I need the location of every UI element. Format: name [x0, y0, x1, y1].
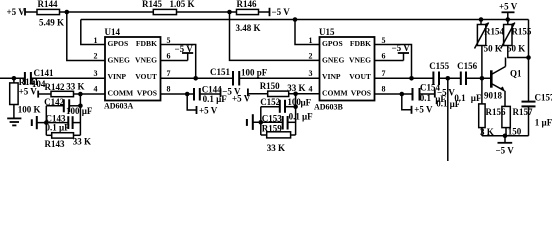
- capacitor C155: [433, 72, 439, 86]
- op-amp U14 AD603A: [105, 37, 161, 101]
- junction U15 pin1 on gain line: [293, 17, 298, 22]
- svg-text:R141: R141: [19, 77, 39, 87]
- wire: [60, 11, 154, 13]
- svg-text:−5 V: −5 V: [392, 43, 411, 53]
- svg-text:VNEG: VNEG: [349, 56, 371, 65]
- svg-text:5.49 K: 5.49 K: [39, 18, 64, 28]
- svg-text:33 K: 33 K: [267, 143, 285, 153]
- svg-text:−5 V: −5 V: [496, 146, 515, 156]
- svg-text:0.1: 0.1: [289, 112, 301, 122]
- resistor R146: [237, 9, 259, 14]
- wire node X down: [447, 78, 449, 161]
- input junction: [12, 76, 17, 81]
- capacitor C153: [247, 114, 253, 130]
- capacitor C151: [233, 71, 239, 86]
- svg-text:VOUT: VOUT: [349, 72, 371, 81]
- -5V terminal bottom: [504, 136, 506, 143]
- junction R155 top: [506, 17, 511, 22]
- svg-text:−5 V: −5 V: [175, 44, 194, 54]
- -5V terminal after C144: [220, 88, 222, 97]
- svg-text:0.1: 0.1: [436, 99, 448, 109]
- svg-text:Q1: Q1: [510, 69, 522, 79]
- wire: [177, 11, 237, 13]
- svg-text:C156: C156: [457, 61, 477, 71]
- svg-text:8: 8: [167, 85, 171, 94]
- svg-text:8: 8: [382, 85, 386, 94]
- svg-text:µF: µF: [301, 98, 312, 108]
- resistor R155 (adjustable): [507, 20, 509, 25]
- svg-text:R159: R159: [262, 124, 282, 134]
- svg-text:1 µF: 1 µF: [535, 118, 552, 128]
- wire U15 pin5 feedback: [375, 45, 412, 79]
- svg-text:33 K: 33 K: [66, 81, 84, 91]
- svg-text:GPOS: GPOS: [322, 39, 343, 48]
- svg-text:U15: U15: [319, 27, 335, 37]
- svg-text:µF: µF: [450, 99, 461, 109]
- svg-text:GNEG: GNEG: [108, 56, 130, 65]
- svg-text:−5 V: −5 V: [437, 87, 455, 97]
- svg-text:VPOS: VPOS: [137, 89, 157, 98]
- svg-text:100 pF: 100 pF: [241, 68, 268, 78]
- svg-text:VPOS: VPOS: [351, 89, 371, 98]
- junction R154 top: [479, 17, 484, 22]
- node B junction: [227, 10, 232, 15]
- svg-text:R154: R154: [484, 27, 504, 37]
- resistor R141: [13, 78, 15, 83]
- wire U14 pin1 riser: [81, 20, 105, 45]
- wire node B to U15 pin2: [230, 12, 320, 60]
- wire C151 to U15 pin3: [239, 77, 319, 79]
- svg-text:2: 2: [309, 52, 313, 61]
- svg-text:R144: R144: [38, 0, 58, 9]
- -5V terminal after R146: [269, 8, 271, 16]
- junction FDBK-VOUT: [193, 76, 198, 81]
- resistor R156: [481, 78, 483, 104]
- svg-text:+5 V: +5 V: [19, 87, 38, 97]
- svg-text:5: 5: [382, 36, 386, 45]
- wire R155 bottom to collector node: [508, 46, 529, 58]
- wire U14 pin8: [161, 93, 195, 95]
- svg-text:+5 V: +5 V: [499, 2, 518, 12]
- wire R142 to U14 pin4: [74, 93, 106, 95]
- wire C141 to U14 pin3: [31, 77, 105, 79]
- wire U14 pin5 feedback: [161, 45, 196, 79]
- svg-text:VNEG: VNEG: [135, 56, 157, 65]
- svg-text:COMM: COMM: [108, 89, 134, 98]
- wire U14 pin7 VOUT: [161, 77, 234, 79]
- bus wire left: [45, 106, 47, 136]
- svg-text:R157: R157: [513, 107, 533, 117]
- svg-text:FDBK: FDBK: [136, 39, 157, 48]
- svg-text:GPOS: GPOS: [108, 39, 129, 48]
- svg-text:1: 1: [309, 36, 313, 45]
- svg-text:9018: 9018: [484, 91, 503, 101]
- svg-text:7: 7: [382, 69, 386, 78]
- U14 pin names: [108, 39, 158, 98]
- svg-text:R142: R142: [45, 82, 65, 92]
- capacitor C154: [413, 88, 420, 101]
- svg-text:R150: R150: [260, 81, 280, 91]
- svg-text:33 K: 33 K: [73, 136, 91, 146]
- node A junction: [65, 10, 70, 15]
- capacitor C152: [261, 106, 280, 108]
- svg-text:100 µF: 100 µF: [66, 106, 93, 116]
- svg-text:R143: R143: [45, 139, 65, 149]
- resistor R157: [502, 106, 510, 127]
- svg-text:C153: C153: [262, 114, 282, 124]
- capacitor C157: [522, 102, 536, 107]
- svg-text:AD603A: AD603A: [104, 102, 134, 111]
- svg-text:AD603B: AD603B: [314, 103, 344, 112]
- svg-text:6: 6: [382, 52, 386, 61]
- bottom rail: [482, 135, 529, 137]
- resistor R142: [51, 91, 74, 96]
- svg-text:3: 3: [309, 69, 313, 78]
- svg-text:1.05 K: 1.05 K: [170, 0, 195, 9]
- bus wire right: [79, 94, 81, 135]
- bus wires U15 network: [295, 94, 297, 135]
- svg-text:3: 3: [94, 69, 98, 78]
- wire U15 pin8: [375, 93, 413, 95]
- svg-text:GNEG: GNEG: [322, 56, 344, 65]
- gain control line: [81, 19, 529, 21]
- capacitor C142: [46, 105, 64, 107]
- svg-text:0.1 µF: 0.1 µF: [46, 123, 71, 133]
- capacitor C141: [25, 72, 31, 85]
- svg-text:50 K: 50 K: [484, 43, 502, 53]
- wire: [25, 11, 37, 13]
- +5V rail drop right: [528, 20, 530, 102]
- -5V symbol U15 pin6: [375, 60, 404, 62]
- node X junction: [446, 76, 451, 81]
- -5V terminal after C154: [434, 90, 436, 98]
- capacitor C156: [461, 72, 466, 86]
- svg-text:C142: C142: [44, 97, 64, 107]
- svg-text:R146: R146: [237, 0, 257, 9]
- svg-text:C144: C144: [202, 84, 222, 94]
- svg-text:C151: C151: [210, 67, 230, 77]
- svg-text:VINP: VINP: [322, 72, 341, 81]
- resistor R150: [268, 91, 289, 96]
- capacitor C143: [32, 116, 37, 129]
- svg-text:R145: R145: [142, 0, 162, 9]
- svg-text:4: 4: [94, 85, 98, 94]
- +5V terminal U15 pin8: [402, 94, 412, 110]
- svg-text:3.48 K: 3.48 K: [236, 23, 261, 33]
- transistor Q1 9018: [490, 70, 493, 87]
- svg-text:4: 4: [309, 85, 313, 94]
- svg-text:COMM: COMM: [322, 89, 348, 98]
- wire U15 pin1 riser: [295, 20, 320, 45]
- wire: [259, 11, 270, 13]
- wire U15 pin7 VOUT: [375, 77, 434, 79]
- -5V symbol U14 pin6: [161, 60, 188, 62]
- wire node A to U14 pin2: [67, 12, 105, 61]
- input wire: [0, 77, 25, 79]
- +5V terminal U14 pin8: [187, 94, 196, 110]
- svg-text:VINP: VINP: [108, 72, 127, 81]
- resistor R145: [153, 9, 176, 14]
- svg-text:µF: µF: [471, 93, 482, 103]
- svg-text:U14: U14: [105, 27, 121, 37]
- svg-text:2: 2: [94, 52, 98, 61]
- svg-text:FDBK: FDBK: [350, 39, 371, 48]
- svg-text:+5 V: +5 V: [199, 106, 218, 116]
- capacitor C144: [194, 88, 200, 101]
- svg-text:100: 100: [287, 97, 301, 107]
- junction bus right: [78, 92, 83, 97]
- svg-text:100 K: 100 K: [18, 105, 41, 115]
- resistor R154 (adjustable): [480, 20, 482, 25]
- svg-text:µF: µF: [302, 112, 313, 122]
- svg-text:+5 V: +5 V: [414, 105, 433, 115]
- svg-text:C155: C155: [429, 61, 449, 71]
- svg-text:50 K: 50 K: [507, 43, 525, 53]
- svg-text:C157: C157: [535, 93, 552, 103]
- svg-text:+5 V: +5 V: [7, 7, 26, 17]
- svg-text:150: 150: [508, 126, 522, 136]
- U14 pin numbers: [94, 36, 171, 94]
- op-amp U15 AD603B: [320, 37, 375, 101]
- svg-text:7: 7: [167, 69, 171, 78]
- resistor R144: [37, 9, 60, 14]
- resistor R159: [261, 134, 267, 136]
- resistor R143: [46, 134, 51, 136]
- svg-text:VOUT: VOUT: [135, 72, 157, 81]
- +5V terminal top left: [24, 8, 26, 16]
- ground: [7, 118, 21, 125]
- svg-text:5: 5: [167, 36, 171, 45]
- svg-text:C152: C152: [260, 97, 280, 107]
- svg-text:−5 V: −5 V: [272, 7, 291, 17]
- svg-text:R156: R156: [486, 107, 506, 117]
- svg-text:6: 6: [167, 52, 171, 61]
- svg-text:1: 1: [94, 36, 98, 45]
